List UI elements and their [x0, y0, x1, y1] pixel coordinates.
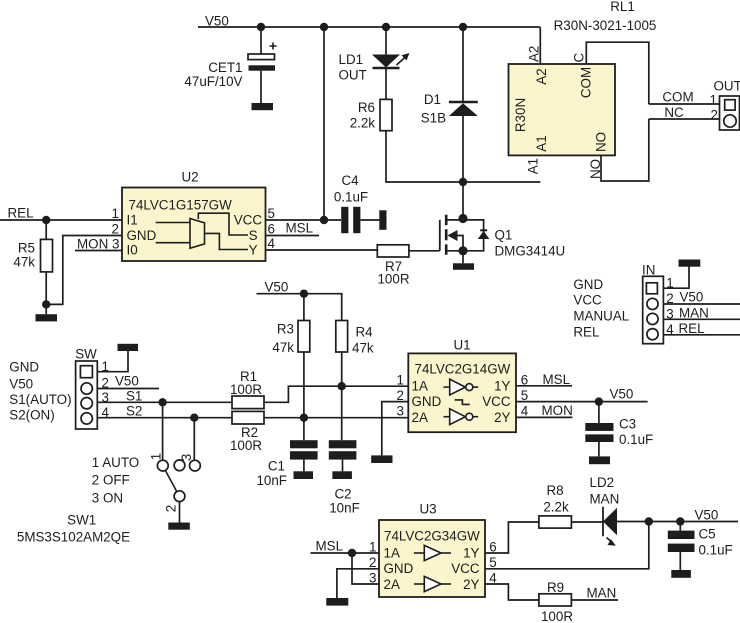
switch SW1 5MS3S102AM2QE [17, 453, 200, 545]
wire SW pin1 to ground [97, 351, 128, 372]
wire switch terminal3 up to S2 [193, 418, 195, 461]
svg-text:V50: V50 [610, 387, 634, 402]
svg-text:DMG3414U: DMG3414U [495, 244, 566, 259]
svg-text:V50: V50 [695, 507, 719, 522]
node V50 label (LD2) [695, 507, 719, 522]
wire R4 bottom to 1A node [341, 352, 343, 386]
svg-text:S1: S1 [126, 388, 142, 403]
junction A1 node [459, 178, 467, 186]
ground C4 (sideways bar) [379, 210, 386, 230]
junction S2 / switch terminal 3 [190, 414, 198, 422]
svg-text:C3: C3 [619, 417, 636, 432]
capacitor CET1 47uF/10V [184, 43, 276, 90]
junction top rail at LD1 [382, 23, 390, 31]
svg-text:U3: U3 [419, 502, 436, 517]
wire R8 to LD2 [571, 521, 603, 523]
wire R5 bottom [45, 272, 47, 314]
svg-text:1 AUTO: 1 AUTO [92, 455, 139, 470]
svg-text:V50: V50 [680, 290, 704, 305]
junction U1 VCC / C3 [595, 397, 603, 405]
svg-text:GND: GND [9, 360, 39, 375]
svg-text:2: 2 [112, 222, 119, 237]
wire MSL stub U2 pin6 [266, 235, 320, 237]
LED LD1 OUT [339, 52, 410, 83]
junction top rail at CET1 [257, 23, 265, 31]
svg-text:LD2: LD2 [590, 475, 615, 490]
svg-text:74LVC2G34GW: 74LVC2G34GW [384, 529, 480, 544]
wire U1 pin2 GND to ground [382, 402, 409, 456]
svg-text:A1: A1 [534, 135, 549, 151]
svg-text:47k: 47k [272, 340, 294, 355]
wire MON stub U2 pin3 [75, 250, 122, 252]
wire V50 stub SW pin2 [97, 374, 159, 389]
wire LD2 to V50 [617, 521, 738, 523]
capacitor C3 0.1uF [585, 402, 653, 457]
svg-text:R3: R3 [277, 322, 294, 337]
resistor R9 100R [539, 580, 573, 623]
svg-text:VCC: VCC [234, 213, 263, 228]
ground C3 [589, 456, 610, 464]
relay pin NO [588, 119, 649, 181]
wire CET1 bottom [260, 71, 262, 103]
wire 1A node down to C2 [341, 386, 343, 440]
svg-text:2 OFF: 2 OFF [92, 473, 130, 488]
svg-text:0.1uF: 0.1uF [619, 432, 653, 447]
svg-text:OUT: OUT [339, 68, 367, 83]
wire U3 pin6 to R8 [485, 522, 539, 553]
svg-text:S1B: S1B [421, 111, 446, 126]
svg-text:SW1: SW1 [67, 513, 96, 528]
svg-text:MSL: MSL [286, 221, 314, 236]
relay pin C [572, 42, 649, 104]
IC U1 74LVC2G14GW [397, 338, 529, 433]
junction Q1 drain [458, 214, 467, 223]
IC U2 74LVC1G157GW [77, 170, 313, 262]
node V50 label (U1) [610, 387, 634, 402]
svg-text:3 ON: 3 ON [92, 490, 123, 505]
junction U2 VCC / C4 node [320, 216, 328, 224]
svg-text:1: 1 [710, 93, 717, 108]
relay RL1 body R30N [509, 64, 616, 155]
wire S2 from SW pin4 to R2 [97, 417, 232, 419]
svg-text:47k: 47k [352, 341, 374, 356]
svg-text:MAN: MAN [679, 305, 709, 320]
wire U2 GND pin to ground node [46, 236, 122, 305]
svg-text:MAN: MAN [587, 586, 617, 601]
IC U3 74LVC2G34GW [369, 502, 497, 598]
wire D1 top [462, 27, 464, 102]
svg-text:4: 4 [102, 405, 110, 420]
connector IN [573, 263, 674, 344]
wire MSL stub U3 pin1 [311, 539, 380, 554]
svg-text:MANUAL: MANUAL [573, 309, 629, 324]
svg-text:SW: SW [75, 347, 97, 362]
ground CET1 [252, 103, 274, 110]
wire IN pin1 to ground [663, 267, 689, 289]
svg-text:2.2k: 2.2k [350, 116, 376, 131]
wire REL to U2 pin1 [0, 219, 122, 221]
connector OUT [710, 79, 740, 131]
capacitor C4 0.1uF [334, 173, 379, 233]
resistor R7 100R [377, 245, 410, 287]
wire U2 pin Y to R7 [266, 249, 378, 252]
ground Q1 [453, 263, 474, 270]
junction Q1 source [458, 246, 467, 255]
svg-text:2: 2 [711, 108, 718, 123]
ground C1 [294, 471, 314, 479]
node label S1 [126, 388, 142, 403]
svg-text:VCC: VCC [451, 561, 480, 576]
svg-text:5: 5 [489, 555, 496, 570]
capacitor C5 0.1uF [668, 522, 733, 571]
wire MON stub U1 pin4 [516, 403, 573, 418]
relay RL1 labels [554, 0, 657, 33]
svg-text:R30N-3021-1005: R30N-3021-1005 [554, 18, 657, 33]
svg-text:Q1: Q1 [495, 228, 513, 243]
svg-text:A2: A2 [527, 46, 542, 62]
svg-text:IN: IN [642, 263, 655, 278]
svg-text:OUT: OUT [714, 79, 740, 94]
svg-text:S: S [249, 228, 258, 243]
junction R3 / 2A wire [300, 414, 308, 422]
svg-text:S1(AUTO): S1(AUTO) [9, 392, 71, 407]
svg-text:C: C [572, 53, 587, 63]
ground U1 [371, 455, 392, 463]
node V50 mid label [265, 280, 289, 295]
svg-text:R30N: R30N [513, 98, 528, 132]
diode D1 S1B [421, 92, 478, 182]
svg-text:R5: R5 [18, 241, 35, 256]
svg-text:I1: I1 [127, 213, 138, 228]
svg-text:47k: 47k [13, 255, 35, 270]
junction C5 node [676, 517, 684, 525]
svg-text:2Y: 2Y [494, 410, 510, 425]
svg-text:1A: 1A [412, 379, 428, 394]
svg-text:1: 1 [112, 206, 119, 221]
wire LD1 to R6 [385, 68, 387, 99]
wire MSL stub U1 pin6 [516, 372, 572, 387]
svg-text:C4: C4 [341, 173, 359, 188]
wire R6 to drain node [386, 131, 463, 182]
svg-text:100R: 100R [377, 272, 409, 287]
svg-text:V50: V50 [265, 280, 289, 295]
wire 2A node down to C1 [303, 418, 305, 441]
svg-text:10nF: 10nF [256, 473, 287, 488]
svg-text:V50: V50 [9, 377, 33, 392]
svg-text:REL: REL [8, 206, 34, 221]
resistor R5 47k [13, 239, 52, 272]
transistor Q1 DMG3414U [440, 215, 565, 259]
wire U3 pin3 to MSL node [352, 553, 379, 584]
svg-text:U2: U2 [181, 170, 198, 185]
wire LD1 anode [385, 27, 387, 55]
svg-text:100R: 100R [230, 438, 262, 453]
svg-text:R9: R9 [547, 580, 564, 595]
junction MSL / U3 pin3 loop [348, 549, 356, 557]
svg-text:MAN: MAN [590, 491, 620, 506]
svg-text:1: 1 [148, 453, 163, 460]
svg-text:MSL: MSL [316, 539, 344, 554]
svg-text:100R: 100R [541, 609, 573, 623]
junction R4 / 1A wire [338, 382, 346, 390]
svg-text:R8: R8 [546, 483, 563, 498]
svg-text:2Y: 2Y [463, 577, 479, 592]
svg-text:5: 5 [268, 206, 275, 221]
relay pin A2 [527, 27, 542, 64]
wire R7 to Q1 gate [409, 250, 440, 252]
svg-text:A2: A2 [534, 68, 549, 84]
wire R2 to U1 pin3 (2A) [264, 417, 408, 419]
node V50 top label [205, 14, 229, 29]
svg-text:74LVC1G157GW: 74LVC1G157GW [129, 198, 233, 213]
resistor R8 2.2k [539, 483, 572, 528]
junction top rail at C4 branch [320, 23, 328, 31]
wire S1 from SW pin3 to R1 [97, 401, 232, 403]
svg-text:COM: COM [579, 67, 594, 98]
svg-text:3: 3 [102, 390, 109, 405]
wire V50 stub IN pin2 [663, 290, 740, 305]
wire R3 top [303, 294, 305, 321]
wire V50 down to U2 VCC node [323, 27, 325, 220]
svg-text:5MS3S102AM2QE: 5MS3S102AM2QE [17, 530, 130, 545]
svg-text:2: 2 [369, 555, 376, 570]
svg-text:C5: C5 [699, 527, 716, 542]
svg-text:1Y: 1Y [463, 546, 479, 561]
wire COM to OUT pin1 [649, 90, 720, 105]
junction S1 / switch terminal 1 [158, 398, 166, 406]
svg-text:2A: 2A [412, 410, 428, 425]
ground IN pin1 [679, 260, 701, 267]
wire V50 mid rail [257, 294, 342, 321]
wire V50 top rail [198, 26, 540, 28]
svg-text:C1: C1 [268, 459, 285, 474]
svg-text:3: 3 [179, 454, 194, 461]
svg-text:MSL: MSL [543, 372, 571, 387]
junction mid rail R3 [300, 290, 308, 298]
relay pin A1 [525, 158, 540, 174]
ground C2 [332, 471, 352, 479]
ground U3 [326, 598, 348, 606]
wire U3 pin4 to R9 [485, 584, 539, 600]
svg-text:REL: REL [679, 321, 705, 336]
junction R5 bottom [42, 300, 50, 308]
svg-text:GND: GND [384, 561, 414, 576]
svg-text:MON: MON [542, 403, 573, 418]
svg-text:47uF/10V: 47uF/10V [184, 74, 242, 89]
svg-text:LD1: LD1 [339, 52, 364, 67]
svg-text:NO: NO [588, 159, 603, 179]
wire U3 pin2 GND to ground [337, 569, 379, 598]
svg-text:74LVC2G14GW: 74LVC2G14GW [415, 362, 511, 377]
svg-text:D1: D1 [424, 92, 441, 107]
svg-text:1A: 1A [384, 546, 400, 561]
svg-text:U1: U1 [453, 338, 470, 353]
capacitor C2 10nF [329, 440, 360, 515]
svg-text:GND: GND [127, 228, 157, 243]
junction top rail at D1 [459, 23, 467, 31]
resistor R2 100R [230, 411, 264, 453]
wire U3 pin5 VCC to LED node [485, 522, 649, 569]
wire R1 to U1 pin1 (1A) [264, 386, 408, 402]
wire CET1 top [260, 27, 262, 54]
resistor R3 47k [272, 321, 309, 356]
wire drain node down [462, 182, 464, 219]
svg-text:V50: V50 [115, 374, 139, 389]
svg-text:MON 3: MON 3 [77, 237, 119, 252]
junction LED / U3 VCC node [645, 517, 653, 525]
svg-text:R6: R6 [358, 100, 375, 115]
svg-text:4: 4 [268, 236, 276, 251]
svg-text:4: 4 [521, 404, 529, 419]
svg-text:REL: REL [573, 325, 599, 340]
wire Q1 source to ground [462, 251, 464, 263]
wire REL stub IN pin4 [663, 321, 740, 336]
svg-text:S2: S2 [126, 404, 142, 419]
svg-text:R4: R4 [356, 325, 374, 340]
resistor R6 2.2k [350, 99, 392, 130]
ground C5 [671, 570, 691, 578]
svg-text:CET1: CET1 [208, 60, 242, 75]
resistor R1 100R [230, 369, 264, 409]
svg-text:VCC: VCC [573, 293, 602, 308]
svg-text:Y: Y [249, 243, 258, 258]
ground SW pin1 [118, 344, 139, 351]
svg-text:C2: C2 [334, 487, 351, 502]
svg-text:1Y: 1Y [494, 379, 510, 394]
resistor R4 47k [336, 321, 374, 356]
wire R3 bottom to 2A node [303, 352, 305, 418]
wire U2 pin5 VCC to C4 [266, 219, 342, 221]
svg-text:NC: NC [664, 105, 684, 120]
svg-text:A1: A1 [525, 158, 540, 174]
svg-text:2.2k: 2.2k [543, 499, 569, 514]
wire U1 pin5 VCC to V50 [516, 401, 648, 403]
svg-text:0.1uF: 0.1uF [699, 543, 733, 558]
LED LD2 MAN [590, 475, 620, 546]
svg-text:6: 6 [268, 222, 275, 237]
node label S2 [126, 404, 142, 419]
ground R5 [36, 314, 58, 321]
svg-text:I0: I0 [127, 243, 138, 258]
svg-text:GND: GND [412, 394, 442, 409]
svg-text:2: 2 [164, 505, 179, 512]
connector SW [9, 347, 109, 430]
wire NC to OUT pin2 [649, 105, 720, 120]
svg-text:0.1uF: 0.1uF [334, 190, 368, 205]
svg-text:S2(ON): S2(ON) [9, 408, 54, 423]
wire switch terminal1 up to S1 [162, 402, 164, 460]
capacitor C1 10nF [256, 440, 317, 488]
svg-text:100R: 100R [230, 382, 262, 397]
svg-text:3: 3 [397, 404, 404, 419]
ground switch terminal2 [168, 523, 190, 530]
junction REL / R5 [42, 216, 50, 224]
svg-text:10nF: 10nF [329, 501, 360, 516]
svg-text:RL1: RL1 [610, 0, 635, 14]
svg-text:NO: NO [594, 132, 609, 152]
svg-text:1: 1 [397, 372, 404, 387]
svg-text:COM: COM [662, 90, 693, 105]
svg-text:VCC: VCC [482, 394, 511, 409]
wire R5 top [45, 220, 47, 239]
wire MAN stub after R9 [571, 586, 618, 601]
wire MAN stub IN pin3 [663, 305, 740, 320]
svg-text:GND: GND [573, 277, 603, 292]
node REL label [8, 206, 34, 221]
wire A1 node to relay pin A1 [463, 181, 540, 183]
svg-text:2A: 2A [384, 577, 400, 592]
